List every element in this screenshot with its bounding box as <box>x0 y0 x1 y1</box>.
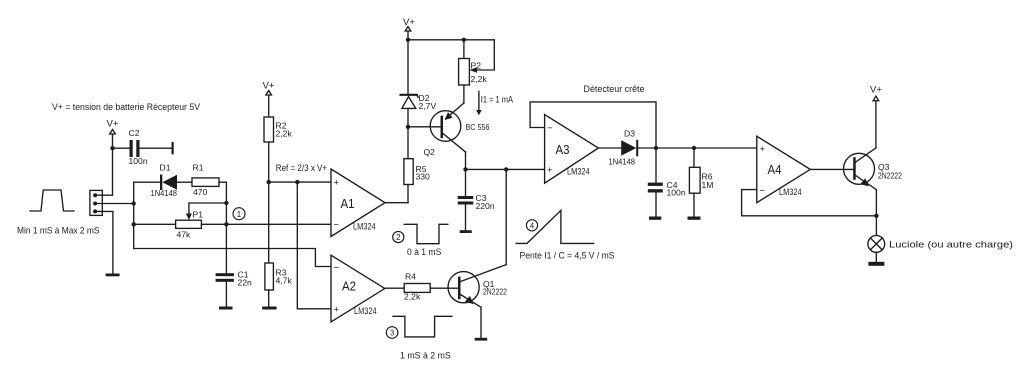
svg-text:V+: V+ <box>107 119 119 130</box>
P1 wiper arrow <box>186 214 192 221</box>
A4 output wire <box>810 168 853 170</box>
wire V+ to R2 <box>268 95 270 117</box>
op-amp A2 <box>331 255 385 322</box>
svg-text:D3: D3 <box>624 129 635 139</box>
svg-text:100n: 100n <box>129 156 148 166</box>
V+ arrow left <box>110 130 116 135</box>
resistor R1 <box>192 178 219 187</box>
node 1 annotation circle <box>233 208 245 220</box>
R3 lower wire <box>268 290 270 307</box>
capacitor C4 <box>648 183 663 193</box>
svg-text:22n: 22n <box>238 278 253 288</box>
P1 wiper wire <box>189 203 227 214</box>
junction signal/P1 <box>132 222 136 226</box>
P2 bottom wire <box>463 85 465 103</box>
svg-text:LM324: LM324 <box>354 306 377 316</box>
svg-text:−: − <box>334 262 340 273</box>
V+ arrow right <box>873 96 879 101</box>
ground C1 <box>219 307 233 310</box>
V+ rail to P2 <box>408 39 494 41</box>
svg-text:I1 = 1 mA: I1 = 1 mA <box>481 95 514 106</box>
ground Q1 <box>475 338 488 341</box>
svg-text:3: 3 <box>390 329 395 338</box>
svg-text:220n: 220n <box>476 201 495 211</box>
svg-text:C2: C2 <box>129 128 140 138</box>
ground C3 <box>460 230 472 233</box>
svg-text:R4: R4 <box>405 272 416 282</box>
svg-text:100n: 100n <box>667 188 686 198</box>
transistor Q1 2N2222 <box>448 265 506 308</box>
C3 lower wire <box>465 205 467 231</box>
wire to D1 <box>134 181 160 183</box>
svg-text:A4: A4 <box>768 162 782 177</box>
svg-text:Pente I1 / C = 4,5 V / mS: Pente I1 / C = 4,5 V / mS <box>520 251 615 262</box>
wire bottom pin to ground <box>95 211 113 273</box>
junction Ref/A2 branch <box>295 180 299 184</box>
junction V+ rail <box>406 38 410 42</box>
svg-text:−: − <box>334 219 340 230</box>
svg-text:LM324: LM324 <box>567 167 590 177</box>
node 4 annotation circle <box>526 220 537 231</box>
junction Q2 base <box>406 125 410 129</box>
R6 lower wire <box>693 193 695 216</box>
svg-text:4,7k: 4,7k <box>276 276 293 286</box>
svg-text:−: − <box>547 123 553 134</box>
svg-text:330: 330 <box>416 172 431 182</box>
zener D2 triangle <box>402 97 416 109</box>
svg-text:P1: P1 <box>193 210 204 220</box>
P2 top wire <box>463 40 465 59</box>
svg-text:V+: V+ <box>870 85 882 96</box>
A3 output wire <box>598 147 621 149</box>
svg-text:2N2222: 2N2222 <box>483 287 507 297</box>
V+ vertical middle <box>407 31 409 95</box>
junction C4 <box>654 146 658 150</box>
svg-text:0 à 1 mS: 0 à 1 mS <box>407 247 441 258</box>
svg-text:−: − <box>760 185 766 196</box>
capacitor C2 <box>130 140 140 157</box>
D3 to A4 wire <box>638 147 757 149</box>
svg-text:V+ = tension de batterie Réce: V+ = tension de batterie Récepteur 5V <box>52 102 201 113</box>
signal node vertical <box>133 182 135 248</box>
wire to C2 <box>113 147 130 149</box>
Ref wire to A1 + <box>269 181 331 183</box>
potentiometer P2 <box>459 59 470 86</box>
node 2 annotation circle <box>393 231 404 242</box>
resistor R6 <box>689 167 700 193</box>
P2 wiper loop <box>477 40 494 70</box>
wire D1 to R1 <box>177 181 192 183</box>
connector pin dots <box>93 193 97 213</box>
svg-text:Min 1 mS à Max 2 mS: Min 1 mS à Max 2 mS <box>17 226 100 237</box>
ground lamp <box>868 262 884 266</box>
ground C4 <box>649 217 661 220</box>
node junction V+/C2 <box>110 146 114 150</box>
svg-text:1: 1 <box>237 210 242 219</box>
P2 wiper arrow <box>469 67 477 72</box>
A4 feedback wire <box>742 190 877 216</box>
svg-text:1 mS à 2 mS: 1 mS à 2 mS <box>400 351 451 362</box>
resistor R4 <box>404 284 430 293</box>
resistor R3 <box>265 263 274 290</box>
svg-text:+: + <box>334 305 340 316</box>
svg-text:2N2222: 2N2222 <box>878 171 902 181</box>
svg-text:470: 470 <box>193 187 208 197</box>
R5 to A1 output <box>407 185 409 203</box>
Q3 emitter wire <box>875 190 877 236</box>
svg-text:Détecteur crête: Détecteur crête <box>584 84 645 95</box>
divider vertical wire <box>268 142 270 263</box>
C1 lower wire <box>225 282 227 307</box>
svg-text:2,7V: 2,7V <box>419 101 437 111</box>
wire C2 to stub <box>140 147 172 149</box>
wire node1 to A1 inverting input <box>134 223 331 225</box>
ground (input) <box>106 274 120 277</box>
svg-text:LM324: LM324 <box>779 187 802 197</box>
svg-text:Q2: Q2 <box>424 147 436 157</box>
svg-text:A1: A1 <box>341 196 355 211</box>
svg-text:LM324: LM324 <box>353 222 376 232</box>
svg-text:BC 556: BC 556 <box>466 122 490 132</box>
wire top pin to V+ <box>95 134 112 195</box>
node 3 annotation circle <box>386 327 398 339</box>
C4 top wire <box>655 148 657 183</box>
connector J1 <box>90 190 102 215</box>
waveform 3 <box>393 316 452 337</box>
junction Q1 collector <box>504 167 508 171</box>
svg-text:2: 2 <box>396 233 401 242</box>
Q3 collector to V+ <box>875 101 877 148</box>
wire Ref to A2 + <box>297 182 331 309</box>
V+ arrow R2 <box>266 91 272 96</box>
lamp lower wire <box>875 252 877 261</box>
C4 lower wire <box>655 193 657 217</box>
op-amp A3 <box>545 115 599 184</box>
op-amp A1 <box>331 169 385 237</box>
waveform 2 <box>404 224 448 243</box>
svg-text:1N4148: 1N4148 <box>151 188 178 198</box>
lamp (luciole) <box>868 236 885 253</box>
wire R1 to node1 vertical <box>219 181 226 183</box>
svg-text:2,2k: 2,2k <box>471 74 488 84</box>
diode D3 <box>621 140 638 157</box>
svg-text:+: + <box>334 178 340 189</box>
I1 current arrow <box>476 91 482 115</box>
capacitor C3 <box>458 196 474 205</box>
svg-text:D1: D1 <box>160 163 171 173</box>
transistor Q2 BC556 <box>430 103 465 152</box>
svg-text:1N4148: 1N4148 <box>609 157 636 167</box>
junction Ref <box>267 180 271 184</box>
node1 vertical wire <box>225 182 227 273</box>
waveform 4 ramp <box>516 210 593 243</box>
svg-text:Luciole (ou autre charge): Luciole (ou autre charge) <box>889 240 1013 251</box>
A2 output wire <box>385 287 404 289</box>
A1 output wire <box>385 202 408 204</box>
terminal stub <box>172 142 174 154</box>
junction feedback/emitter <box>874 214 878 218</box>
svg-text:2,2k: 2,2k <box>276 129 293 139</box>
capacitor C1 <box>216 273 234 282</box>
ground R3 <box>262 307 276 310</box>
potentiometer P1 <box>176 220 202 228</box>
resistor R5 <box>404 159 413 185</box>
resistor R2 <box>264 117 274 142</box>
Q2 collector wire <box>465 152 467 196</box>
diode D1 <box>160 175 177 191</box>
svg-text:+: + <box>547 165 553 176</box>
junction signal/middle pin <box>132 201 136 205</box>
op-amp A4 <box>757 136 811 203</box>
Q1 collector vertical <box>505 169 507 264</box>
svg-text:47k: 47k <box>177 230 192 240</box>
V+ arrow middle <box>405 27 411 32</box>
svg-text:+: + <box>760 144 766 155</box>
wire signal to A2 inverting input <box>134 249 331 267</box>
junction P2 top <box>462 38 466 42</box>
svg-text:A3: A3 <box>556 142 570 157</box>
junction wiper <box>224 201 228 205</box>
svg-text:V+: V+ <box>403 17 415 28</box>
transistor Q3 2N2222 <box>844 148 877 190</box>
wire middle pin (signal) <box>95 203 134 205</box>
svg-text:A2: A2 <box>342 279 356 294</box>
junction R6 <box>692 146 696 150</box>
Q2 base wire <box>408 126 441 128</box>
svg-text:1M: 1M <box>702 180 714 190</box>
R4 to Q1 base <box>430 287 458 289</box>
junction node1 <box>224 222 228 226</box>
svg-text:4: 4 <box>530 221 535 230</box>
R6 top wire <box>693 148 695 167</box>
A3 feedback loop <box>530 102 656 148</box>
input pulse waveform <box>30 190 74 211</box>
junction C3 node <box>463 167 467 171</box>
svg-text:R1: R1 <box>193 163 204 173</box>
zener D2 bar <box>401 95 419 98</box>
D2 to R5 wire <box>407 108 409 158</box>
Q1 emitter wire <box>480 307 482 338</box>
ground R6 <box>688 217 701 220</box>
svg-text:2,2k: 2,2k <box>404 292 421 302</box>
wire C3 node to A3 + <box>466 168 545 170</box>
svg-text:Ref = 2/3 x V+: Ref = 2/3 x V+ <box>276 163 328 174</box>
